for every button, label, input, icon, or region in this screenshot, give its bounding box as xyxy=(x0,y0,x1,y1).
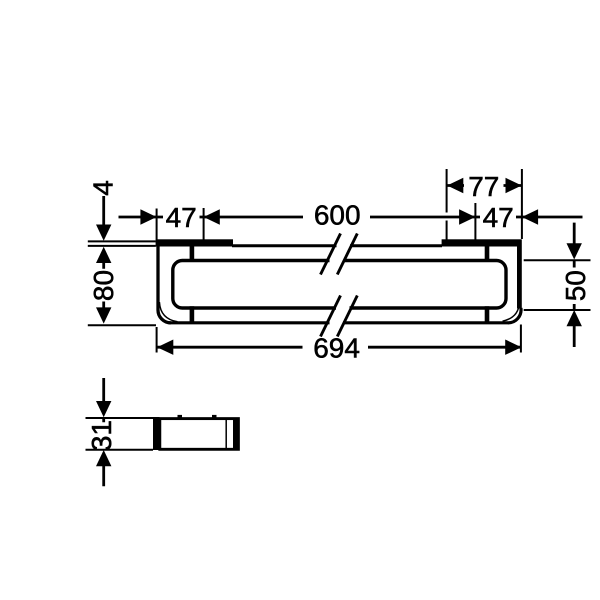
svg-text:50: 50 xyxy=(560,270,591,301)
svg-text:4: 4 xyxy=(88,180,119,196)
svg-text:47: 47 xyxy=(483,202,514,233)
svg-text:77: 77 xyxy=(468,171,499,202)
svg-text:47: 47 xyxy=(166,202,197,233)
svg-text:80: 80 xyxy=(88,270,119,301)
svg-text:600: 600 xyxy=(314,200,361,231)
svg-text:31: 31 xyxy=(86,420,117,451)
svg-text:694: 694 xyxy=(313,332,360,363)
